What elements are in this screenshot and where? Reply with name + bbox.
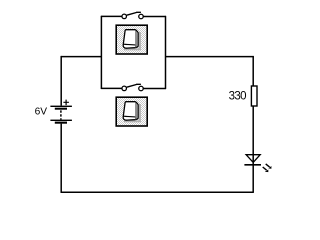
battery B1 dashed link bbox=[60, 110, 62, 119]
switch SW2 rocker image bbox=[116, 97, 147, 126]
LED D1 light arrow 2 bbox=[263, 167, 269, 172]
wire right vertical (resistor bottom through LED to bottom rail) bbox=[252, 106, 254, 193]
battery B1 plus sign bbox=[63, 100, 69, 106]
switch SW2 contacts bbox=[122, 86, 143, 91]
switch SW1 lever bbox=[126, 12, 141, 15]
wire switch-loop left vertical bbox=[100, 16, 102, 89]
wire left horizontal (battery junction to switch loop) bbox=[61, 56, 101, 58]
wire left vertical upper (junction down to battery + plate) bbox=[60, 56, 62, 106]
wire switch-loop right vertical bbox=[165, 16, 167, 89]
resistor R1 body bbox=[251, 86, 257, 106]
LED D1 cathode bar bbox=[244, 164, 261, 166]
wire left vertical lower (battery - plate to bottom rail) bbox=[60, 124, 62, 193]
battery B1 cell 1 long plate bbox=[50, 106, 72, 107]
wire bottom branch left segment bbox=[101, 87, 122, 89]
switch SW1 contacts bbox=[122, 14, 143, 19]
wire top-right horizontal bbox=[166, 56, 254, 58]
switch SW1 rocker image bbox=[116, 25, 147, 54]
svg-text:6V: 6V bbox=[35, 107, 48, 118]
svg-text:330: 330 bbox=[229, 91, 246, 103]
battery B1 cell 2 long plate bbox=[50, 120, 72, 121]
battery B1 cell 2 short plate bbox=[55, 122, 67, 124]
wire top branch right segment bbox=[143, 16, 166, 18]
switch SW2 lever bbox=[126, 84, 141, 87]
battery B1 cell 1 short plate bbox=[55, 108, 67, 110]
LED D1 light arrow 1 bbox=[266, 164, 272, 169]
wire right vertical upper (top-right corner to resistor top) bbox=[252, 57, 254, 86]
wire bottom branch right segment bbox=[143, 88, 166, 90]
wire top branch left segment bbox=[101, 15, 122, 17]
wire bottom rail bbox=[61, 191, 254, 193]
LED D1 triangle bbox=[246, 155, 260, 163]
